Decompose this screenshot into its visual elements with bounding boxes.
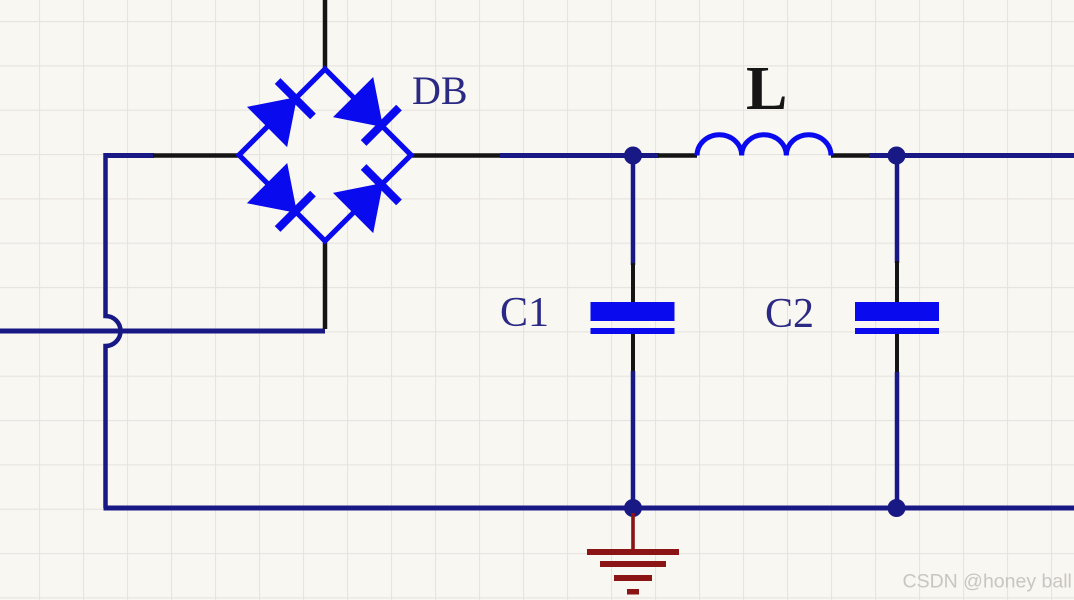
node A: junction dot left of inductor	[624, 147, 642, 165]
wire: black C2 bottom pin	[895, 334, 899, 374]
diode bottom-right (anode bottom vertex, cathode right vertex)	[334, 167, 399, 232]
diode top-left (anode left vertex, cathode top vertex)	[248, 81, 313, 146]
wire: navy horizontal from x=500 to inductor left pin	[500, 153, 659, 158]
node B: junction dot right of inductor	[888, 147, 906, 165]
wire: navy horizontal at y=331 from left edge to bridge bottom leg	[0, 329, 325, 334]
diode bottom-left (anode left vertex, cathode bottom vertex)	[248, 164, 313, 229]
inductor L coil	[697, 135, 831, 156]
capacitor C1 plates	[591, 302, 675, 334]
wire: black inductor right pin	[831, 153, 870, 158]
wire: navy vertical C1 branch upper	[631, 156, 636, 266]
wire: navy horizontal from inductor to right edge	[869, 153, 1074, 158]
wire: black stub, bridge left pin	[153, 153, 239, 158]
svg-text:C2: C2	[765, 291, 814, 337]
wire: navy left vertical with hop over y=331 wire	[106, 153, 121, 508]
wire: black vertical, bridge bottom pin down to y=331	[323, 241, 328, 329]
wire: black C1 bottom pin	[631, 334, 635, 373]
wire: navy vertical C2 branch lower	[895, 372, 900, 508]
node D: bottom junction dot under C2	[888, 499, 906, 517]
node C: bottom junction dot under C1	[624, 499, 642, 517]
diode top-right (anode top vertex, cathode right vertex)	[334, 78, 399, 143]
wire: navy bottom horizontal rail y=508	[104, 506, 1074, 511]
capacitor C2 plates	[855, 302, 939, 334]
wire: black inductor left pin	[658, 153, 697, 158]
ground symbol	[587, 513, 679, 595]
svg-text:CSDN @honey ball: CSDN @honey ball	[903, 571, 1072, 593]
wire: black stub, bridge right pin	[412, 153, 500, 158]
wire: black C1 top pin	[631, 263, 635, 303]
svg-text:DB: DB	[412, 68, 468, 113]
wire: navy from left corner to bridge left pin	[104, 153, 155, 158]
wire: black vertical from top edge to bridge top vertex	[323, 0, 328, 69]
bridge rectifier DB: diamond outline	[239, 69, 411, 241]
svg-text:L: L	[746, 55, 787, 123]
wire: navy vertical C2 branch upper	[895, 156, 900, 264]
wire: black C2 top pin	[895, 261, 899, 303]
wire: navy vertical C1 branch lower	[631, 371, 636, 508]
svg-text:C1: C1	[500, 290, 549, 336]
